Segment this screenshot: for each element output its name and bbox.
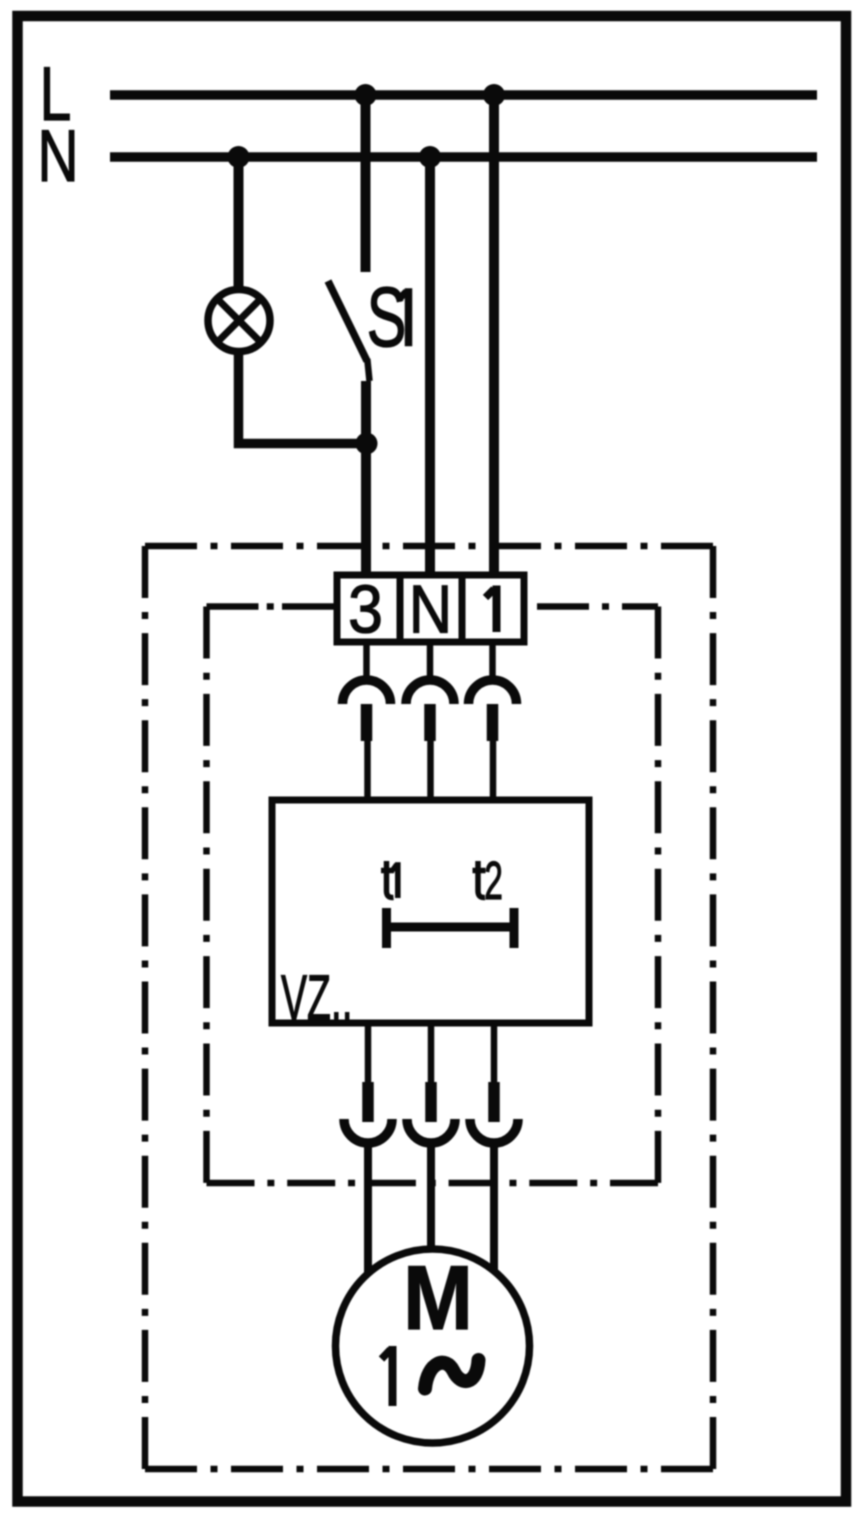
wire terminalN to socket: [427, 642, 434, 677]
wire VZ to pin 1: [365, 1023, 372, 1082]
junction dot on N at x238: [228, 146, 250, 168]
wire from switch down through junction to terminal 3: [361, 381, 371, 575]
inner dash-dot enclosure left edge: [203, 607, 210, 1184]
motor M1~: [336, 1249, 530, 1443]
junction dot on L at x365: [355, 84, 377, 106]
inner dash-dot enclosure top-left segment: [207, 603, 335, 610]
socket arc 3 lower: [470, 1119, 518, 1143]
wire from L down to switch S1: [361, 95, 371, 272]
svg-text:N: N: [37, 115, 78, 196]
switch S1 pivot stub: [367, 359, 369, 381]
switch S1 blade: [328, 281, 367, 361]
inner dash-dot enclosure right edge: [655, 607, 662, 1184]
wire VZ to pin 3: [491, 1023, 498, 1082]
svg-text:2: 2: [484, 850, 503, 911]
motor ~ (AC) symbol: [425, 1360, 479, 1389]
wire socket2 to motor: [427, 1142, 435, 1252]
wire N line: [110, 152, 817, 162]
svg-text:N: N: [409, 571, 452, 647]
pin 1: [361, 704, 373, 741]
socket arc 2: [406, 680, 454, 704]
socket arc 1 lower: [344, 1119, 392, 1143]
upper connector set (socket arcs + pins): [343, 642, 517, 800]
pin 2: [424, 704, 436, 741]
junction dot on N at x430: [419, 146, 441, 168]
terminal N box: [400, 575, 462, 642]
outer dash-dot enclosure left edge: [142, 546, 149, 1469]
wire VZ to pin 2: [428, 1023, 435, 1082]
outer dash-dot enclosure bottom edge: [145, 1466, 713, 1473]
wire from lamp down and over to switch: [239, 351, 367, 444]
svg-text:S: S: [367, 271, 407, 364]
svg-text:M: M: [403, 1247, 473, 1349]
inner dash-dot enclosure top-right segment: [524, 603, 658, 610]
wire L line: [110, 90, 817, 100]
switch S1 label digit 1: [399, 292, 409, 343]
inner dash-dot enclosure bottom edge: [207, 1180, 659, 1187]
outer dash-dot enclosure top edge: [145, 543, 713, 550]
outer dash-dot enclosure right edge: [710, 546, 717, 1469]
junction dot lamp/switch: [356, 433, 378, 455]
junction dot on L at x494: [483, 84, 505, 106]
pin 2 lower: [425, 1082, 437, 1122]
wire terminal1 to socket: [489, 642, 496, 677]
lamp indicator: [208, 290, 270, 352]
pin 1 lower: [362, 1082, 374, 1122]
wire from N down to terminal N: [425, 157, 435, 575]
motor 1 label: [382, 1350, 393, 1403]
socket arc 2 lower: [407, 1119, 455, 1143]
label t2 (t glyph): [473, 861, 486, 898]
pin 3 lower: [488, 1082, 500, 1122]
controller VZ box: [272, 800, 589, 1023]
label t1 (1 glyph): [392, 865, 398, 896]
wire socket3 to motor: [490, 1142, 498, 1272]
terminal 1 box: [462, 575, 524, 642]
wire pin1 to VZ box: [364, 741, 371, 800]
wire socket1 to motor: [364, 1142, 372, 1274]
label t1 (t glyph): [381, 861, 394, 898]
terminal 1 label: [486, 589, 497, 628]
lower connector set (pins into socket arcs): [344, 1023, 518, 1274]
svg-text:3: 3: [348, 571, 383, 647]
wire from N down to lamp: [234, 157, 244, 290]
wire terminal3 to socket: [363, 642, 370, 677]
t1-t2 range bar: [387, 908, 515, 948]
wire pin3 to VZ box: [490, 741, 497, 800]
wire pin2 to VZ box: [427, 741, 434, 800]
socket arc 3: [469, 680, 517, 704]
wire from L down to terminal 1: [489, 95, 499, 575]
socket arc 1: [343, 680, 391, 704]
pin 3: [487, 704, 499, 741]
terminal 3 box: [337, 575, 400, 642]
svg-text:VZ..: VZ..: [281, 963, 353, 1034]
